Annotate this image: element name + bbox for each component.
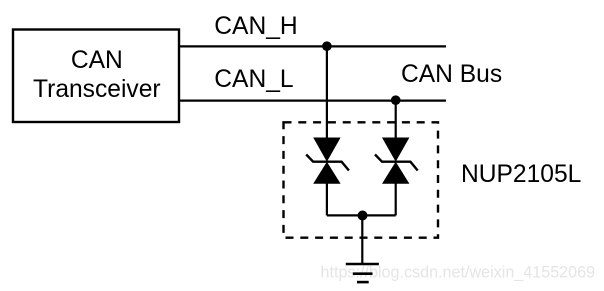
- junction node on CAN_H: [322, 41, 332, 51]
- wire D2 bottom to common rail: [395, 183, 397, 215]
- wire vertical from CAN_L to D2: [395, 101, 397, 140]
- junction node common rail: [358, 211, 368, 221]
- svg-text:Transceiver: Transceiver: [33, 76, 161, 103]
- ground: [346, 264, 379, 282]
- wire stem to ground: [361, 215, 363, 264]
- svg-text:NUP2105L: NUP2105L: [461, 161, 581, 188]
- wire common bottom rail: [327, 214, 396, 216]
- junction node on CAN_L: [391, 95, 401, 105]
- wire D1 bottom to common rail: [326, 183, 328, 215]
- svg-text:CAN: CAN: [71, 47, 123, 74]
- svg-text:CAN Bus: CAN Bus: [401, 61, 502, 88]
- TVS diode D1 (bidirectional, left): [306, 138, 349, 184]
- wire vertical from CAN_H to D1: [326, 46, 328, 140]
- TVS diode D2 (bidirectional, right): [375, 138, 418, 184]
- svg-text:CAN_H: CAN_H: [214, 13, 297, 40]
- dashed box NUP2105L outline: [284, 122, 439, 237]
- wire CAN_L horizontal: [179, 99, 446, 101]
- wire CAN_H horizontal: [179, 45, 446, 47]
- svg-text:CAN_L: CAN_L: [214, 66, 293, 93]
- CAN Transceiver block: [13, 30, 179, 123]
